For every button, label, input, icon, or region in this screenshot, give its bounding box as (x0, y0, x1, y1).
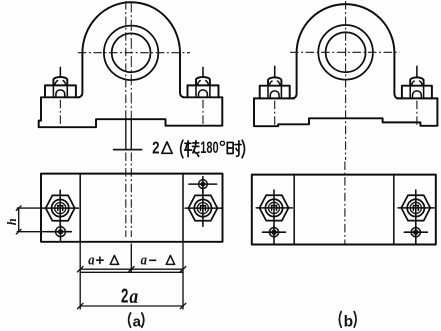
bolt centerline right (b) (416, 101, 418, 126)
bolt centerline left (b) (274, 101, 276, 126)
nut left (b) chamfer arcs (269, 81, 280, 86)
nut left (b) top (268, 77, 281, 85)
stud right (b) (416, 66, 418, 77)
nut left (a) top (53, 77, 67, 85)
horizontal centerline (b) (290, 51, 400, 53)
bore inner circle (a) (112, 33, 151, 72)
vertical centerline (b) (345, 1, 347, 160)
horizontal centerline (a) (78, 52, 190, 54)
scribe centerline continuation below crossbar (a) (125, 153, 127, 238)
nut left (a) body (45, 85, 76, 97)
dimension line a+d a-d (80, 268, 183, 270)
nut right (b) body (402, 86, 432, 99)
h tick upper (16, 206, 21, 211)
svg-text:b: b (344, 314, 353, 331)
tick 2a right (180, 303, 186, 308)
tick a left (77, 267, 83, 272)
nut right (b) faces (410, 86, 423, 98)
scribe centerline left (a) (125, 1, 127, 119)
svg-text:a: a (88, 252, 95, 268)
stud right (a) (202, 67, 204, 77)
housing arch outline (b) (292, 4, 398, 98)
bore outer circle (a) (104, 26, 158, 80)
dimension line 2a (80, 305, 183, 307)
h extension line upper (17, 207, 42, 209)
scribe line solid right below base (a) (130, 119, 132, 150)
extension line left (79, 243, 81, 309)
divider scribe line (130, 244, 132, 273)
hanzi zhuan (185, 141, 199, 157)
dimension line ghost (80, 271, 183, 273)
nut left (b) faces (268, 86, 281, 98)
pin right (b) (404, 226, 427, 245)
nut left (a) faces (53, 85, 67, 97)
label (a) (129, 313, 144, 331)
nut left (a) chamfer arcs (55, 81, 66, 86)
plate interior line left (a) (79, 174, 81, 242)
nut right (a) faces (196, 85, 210, 97)
nut right (a) body (188, 85, 219, 97)
h extension line lower (17, 231, 47, 233)
pin right (a) (189, 177, 217, 192)
nut left (b) body (260, 86, 290, 99)
plate outline (b) (252, 175, 436, 245)
label (b) (339, 312, 356, 331)
ear top surface right (b) (397, 97, 437, 99)
ear top surface left (a) (41, 96, 80, 98)
bore inner circle (b) (326, 32, 366, 72)
plate interior line left (b) (293, 175, 295, 245)
h tick lower (16, 229, 21, 234)
nut right (b) chamfer arcs (412, 81, 423, 86)
tick 2a left (77, 303, 83, 308)
bolt centerline right (a) (202, 100, 204, 126)
stud end left (a) (56, 90, 65, 97)
svg-text:2: 2 (121, 286, 128, 308)
ear top surface right (a) (183, 96, 222, 98)
hex screw left (a) (42, 190, 78, 226)
plate interior line right (a) (182, 174, 184, 242)
scribe crossbar (a) (114, 149, 142, 151)
stud end right (b) (413, 91, 422, 98)
base outline (b) (254, 98, 437, 126)
right paren (242, 140, 244, 158)
hanzi shi (227, 141, 241, 156)
svg-text:a: a (141, 252, 148, 268)
svg-text:h: h (5, 218, 19, 225)
base outline (a) (39, 97, 223, 127)
tick a mid (129, 267, 135, 272)
label a-delta (141, 252, 175, 268)
svg-text:2: 2 (152, 137, 159, 157)
housing arch outline (a) (78, 2, 184, 97)
stud left (a) (59, 67, 61, 77)
stud end left (b) (270, 91, 279, 98)
scribe centerline right (a) (130, 2, 132, 119)
svg-text:a: a (129, 286, 138, 308)
left paren (181, 140, 183, 158)
tick a right (180, 267, 186, 272)
stud left (b) (274, 66, 276, 77)
bore outer circle (b) (318, 25, 373, 80)
bolt centerline left (a) (59, 100, 61, 126)
stud end right (a) (199, 90, 208, 97)
nut right (a) top (196, 77, 210, 85)
hex screw right (b) (398, 190, 434, 226)
ear top surface left (b) (254, 97, 294, 99)
extension line right (182, 243, 184, 309)
svg-text:180: 180 (200, 139, 218, 157)
nut right (a) chamfer arcs (197, 81, 208, 86)
plate interior line right (b) (393, 175, 395, 245)
centerline bottom view (b) (344, 162, 346, 244)
svg-text:a: a (133, 314, 142, 331)
pin left (a) (47, 225, 71, 242)
hex screw left (b) (256, 190, 292, 226)
nut right (b) top (410, 77, 423, 85)
pin left (b) (263, 226, 286, 245)
label a+delta (88, 252, 118, 268)
hex screw right (a) (185, 190, 222, 226)
degree sign (220, 141, 224, 145)
scribe line solid left below base (a) (125, 119, 127, 150)
delta triangle (162, 142, 172, 153)
h dimension line (18, 208, 20, 232)
plate outline (a) (41, 174, 223, 242)
